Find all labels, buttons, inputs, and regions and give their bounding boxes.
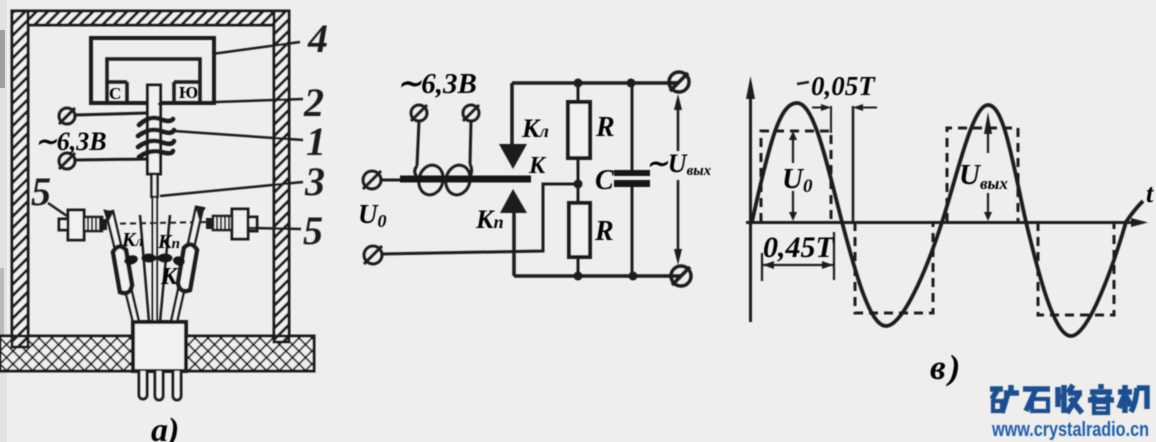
- svg-text:3: 3: [304, 159, 325, 204]
- svg-text:0,45Т: 0,45Т: [763, 231, 836, 264]
- svg-text:R: R: [595, 112, 615, 143]
- svg-text:С: С: [109, 84, 121, 103]
- svg-text:t: t: [1146, 179, 1154, 208]
- svg-text:4: 4: [307, 16, 328, 61]
- svg-text:R: R: [594, 216, 614, 247]
- svg-text:C: C: [595, 165, 614, 196]
- svg-text:5: 5: [31, 169, 51, 214]
- svg-text:www.crystalradio.cn: www.crystalradio.cn: [991, 419, 1149, 441]
- svg-text:в): в): [930, 348, 963, 387]
- svg-text:а): а): [151, 412, 179, 442]
- svg-text:0,05Т: 0,05Т: [811, 71, 876, 101]
- svg-text:К: К: [528, 153, 547, 179]
- svg-text:Ю: Ю: [179, 83, 198, 102]
- svg-text:∼6,3В: ∼6,3В: [397, 68, 477, 100]
- svg-text:∼6,3В: ∼6,3В: [35, 127, 107, 156]
- svg-text:К: К: [160, 264, 179, 290]
- svg-text:1: 1: [306, 119, 326, 164]
- svg-text:5: 5: [303, 208, 323, 253]
